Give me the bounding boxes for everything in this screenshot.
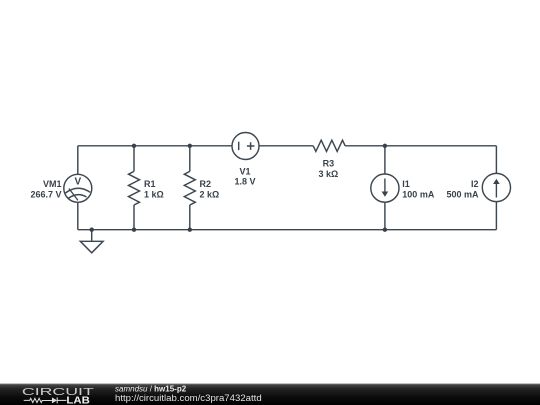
svg-text:R2: R2 [200, 179, 212, 189]
svg-text:V1: V1 [239, 166, 250, 176]
svg-text:R1: R1 [144, 179, 156, 189]
svg-text:1 kΩ: 1 kΩ [144, 190, 164, 200]
svg-text:LAB: LAB [66, 396, 90, 405]
svg-text:266.7 V: 266.7 V [30, 190, 61, 200]
svg-text:100 mA: 100 mA [402, 189, 435, 199]
svg-text:2 kΩ: 2 kΩ [200, 190, 220, 200]
svg-text:R3: R3 [323, 159, 335, 169]
svg-text:http://circuitlab.com/c3pra743: http://circuitlab.com/c3pra7432attd [115, 393, 262, 404]
svg-text:I2: I2 [471, 179, 479, 189]
svg-text:V: V [74, 177, 81, 188]
svg-text:500 mA: 500 mA [446, 189, 479, 199]
svg-text:3 kΩ: 3 kΩ [319, 169, 339, 179]
svg-text:I1: I1 [402, 179, 410, 189]
svg-text:1.8 V: 1.8 V [234, 177, 255, 187]
svg-text:VM1: VM1 [43, 179, 62, 189]
